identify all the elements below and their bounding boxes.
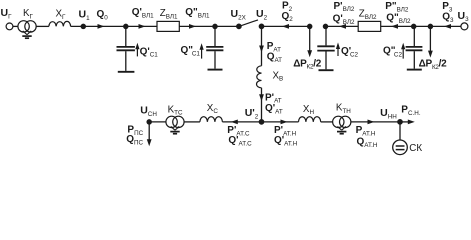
terminal Uг [6, 23, 13, 30]
junction [412, 24, 416, 28]
inductor Xв [257, 66, 262, 88]
arrow Q0 [98, 24, 105, 29]
ground [170, 126, 179, 133]
capacitor C2b [406, 26, 423, 68]
switch blade [239, 20, 258, 27]
arrow Q"c1 [200, 43, 204, 58]
transformer Kтс [166, 116, 177, 127]
arrow dPk2 right [428, 51, 433, 58]
resistor Zвл1 [157, 21, 179, 31]
arrow Pат [259, 46, 264, 53]
wire Pпс [148, 122, 150, 140]
capacitor C2a [317, 26, 334, 69]
ground [319, 69, 334, 71]
transformer Kтн [333, 116, 344, 127]
ground [208, 69, 223, 71]
terminal U3 [461, 23, 468, 30]
junction [213, 24, 217, 28]
capacitor C1 [117, 26, 135, 71]
arrow Pат.н [368, 120, 375, 125]
arrow Pсн [408, 120, 415, 125]
inductor Xг [49, 21, 71, 26]
wire [126, 25, 157, 27]
arrow Q"вл1 [189, 24, 196, 29]
arrow P'ат.с [231, 120, 238, 125]
wire [222, 121, 261, 123]
wire [184, 121, 200, 123]
wire [399, 122, 401, 140]
node U2 [259, 24, 263, 28]
wire [326, 25, 359, 27]
junction [308, 24, 312, 28]
inductor Xс [200, 117, 223, 122]
node U1 [81, 24, 85, 28]
arrow Q'c2 [336, 42, 340, 56]
arrow P'ат.н [281, 120, 288, 125]
arrow P"вл2 [391, 24, 398, 29]
ground [337, 126, 346, 133]
node U'2 [259, 120, 263, 124]
wire [179, 25, 239, 27]
node Uсн [147, 120, 151, 124]
node U2X [237, 24, 241, 28]
svg-text:СК: СК [409, 143, 422, 154]
transformer Kг [18, 21, 29, 32]
arrow Q'c1 [135, 43, 139, 57]
wire dPk2 left [309, 26, 311, 50]
junction [428, 24, 432, 28]
junction [323, 24, 327, 28]
node Uнн [398, 120, 402, 124]
arrow Q'вл1 [139, 24, 146, 29]
wire dPk2 right [429, 26, 431, 51]
wire [71, 25, 126, 27]
arrow Q"c2 [401, 43, 405, 59]
arrow Pпс [147, 139, 152, 146]
wire [149, 121, 166, 123]
inductor Xн [299, 117, 321, 122]
svg-text:С2: С2 [394, 51, 403, 58]
ground [118, 71, 135, 73]
arrow P2Q2 [282, 24, 289, 29]
wire [36, 25, 49, 27]
wire [262, 121, 299, 123]
wire [351, 121, 400, 123]
wire [381, 25, 414, 27]
wire [13, 25, 18, 27]
ground [407, 69, 422, 71]
wire Pсн [400, 121, 409, 123]
wire [414, 25, 461, 27]
wire [321, 121, 333, 123]
ground [22, 31, 31, 38]
capacitor C1b [206, 26, 223, 68]
junction [124, 24, 128, 28]
wire [261, 88, 263, 122]
wire [262, 25, 310, 27]
condenser CK [393, 140, 408, 155]
arrow dPk2 left [307, 50, 312, 57]
resistor Zвл2 [358, 21, 381, 31]
arrow P'ат [259, 94, 264, 101]
arrow P3Q3 [444, 24, 451, 29]
arrow P'вл2 [339, 24, 346, 29]
wire AT branch [261, 26, 263, 65]
